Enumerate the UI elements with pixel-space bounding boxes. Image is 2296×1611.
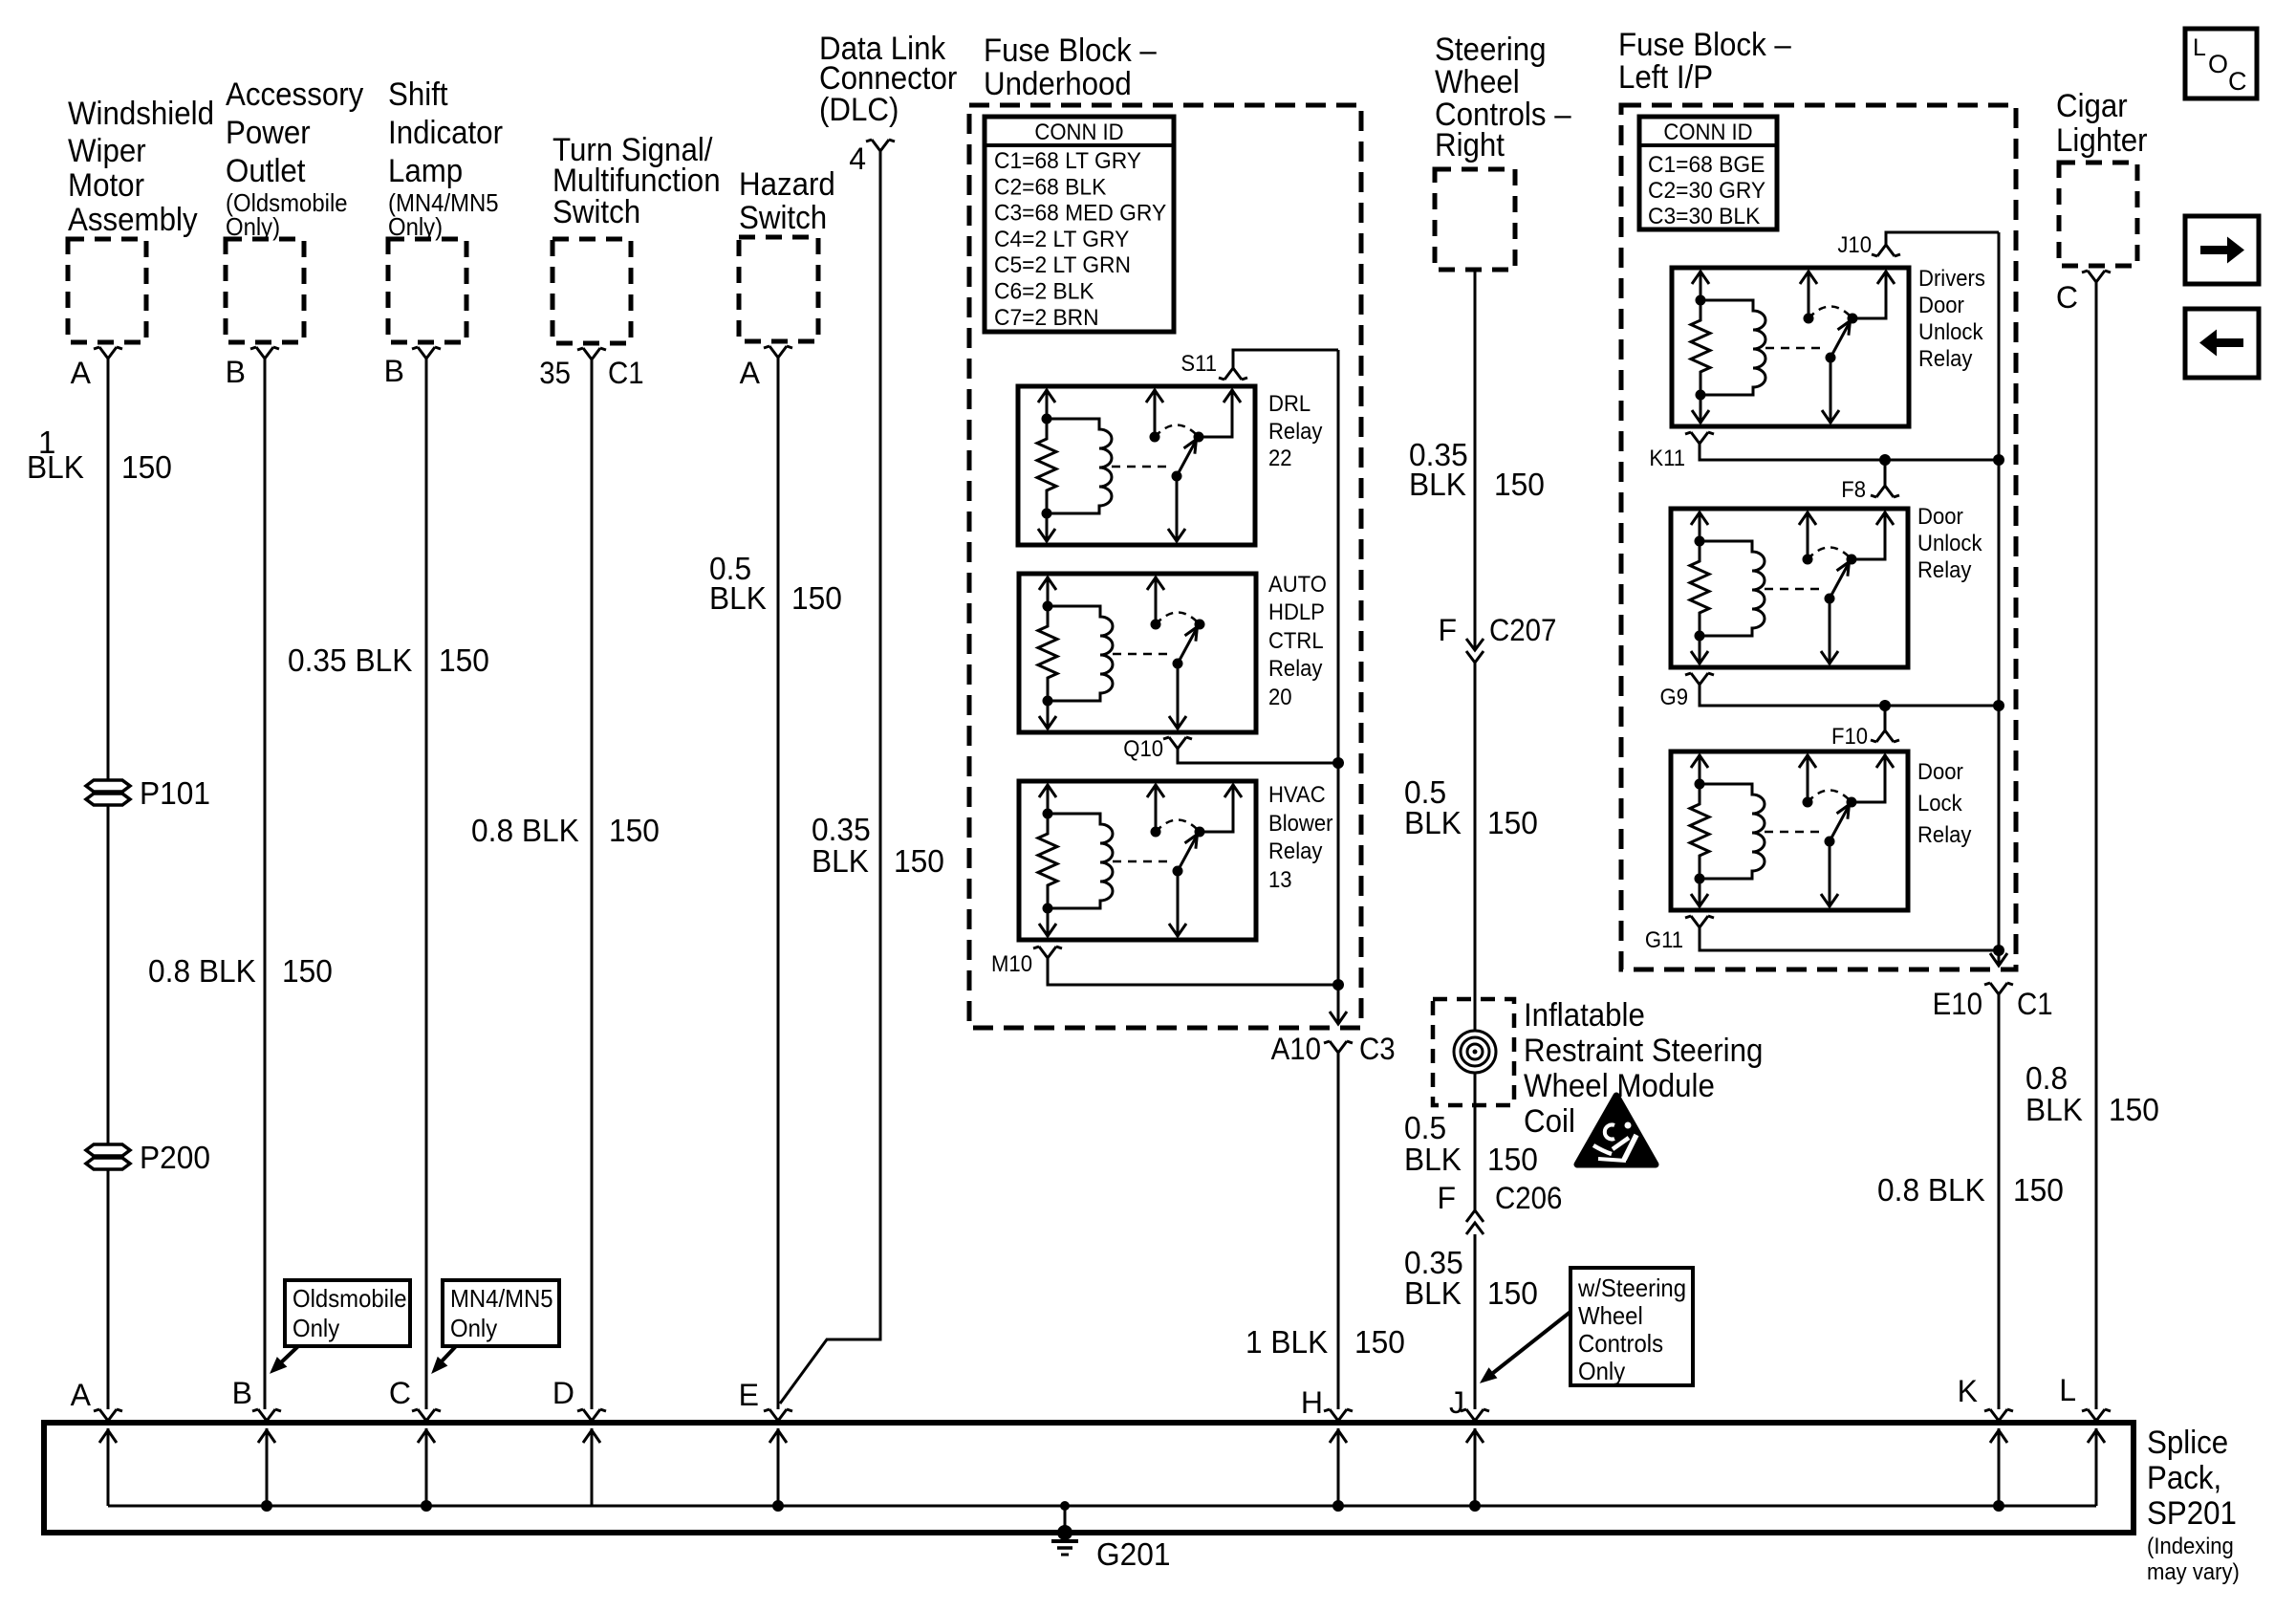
terminal B connector at splice pack bbox=[252, 1409, 281, 1421]
svg-text:C207: C207 bbox=[1489, 613, 1556, 647]
callout Oldsmobile Only bbox=[285, 1280, 410, 1346]
svg-text:CONN ID: CONN ID bbox=[1663, 120, 1752, 145]
terminal H connector at splice pack bbox=[1324, 1409, 1353, 1421]
splice pack pin at x=814 bbox=[769, 1428, 787, 1506]
terminal J connector at splice pack bbox=[1461, 1409, 1489, 1421]
svg-text:A: A bbox=[71, 1378, 92, 1412]
svg-text:L: L bbox=[2059, 1373, 2076, 1407]
svg-text:C3: C3 bbox=[1359, 1032, 1396, 1066]
svg-text:O: O bbox=[2208, 50, 2228, 78]
svg-text:Relay: Relay bbox=[1917, 557, 1971, 583]
wire DLC 0.35 BLK 150 bbox=[780, 151, 880, 1404]
connector box Shift Indicator Lamp bbox=[388, 239, 466, 342]
terminal K connector at splice pack bbox=[1984, 1409, 2013, 1421]
label Splice Pack SP201 bbox=[2147, 1425, 2240, 1585]
svg-text:20: 20 bbox=[1268, 685, 1292, 710]
inline connector F C206 bbox=[1437, 1181, 1562, 1234]
terminal A connector under Windshield box bbox=[94, 347, 122, 359]
terminal E connector at splice pack bbox=[764, 1409, 792, 1421]
splice pack pin at x=619 bbox=[583, 1428, 600, 1506]
svg-text:B: B bbox=[226, 355, 246, 389]
inline connector F C207 bbox=[1438, 613, 1556, 663]
svg-text:1 BLK: 1 BLK bbox=[1245, 1324, 1328, 1360]
pin F10 connector bbox=[1831, 706, 1899, 750]
junction dot on splice bus at x=446 bbox=[421, 1500, 432, 1512]
wire A 1 BLK 150 bbox=[107, 359, 110, 1409]
svg-text:G9: G9 bbox=[1660, 685, 1689, 710]
svg-text:A: A bbox=[740, 356, 761, 390]
svg-text:0.35: 0.35 bbox=[812, 812, 871, 847]
splice pack pin at x=279 bbox=[258, 1428, 275, 1506]
relay Door Unlock Relay bbox=[1671, 509, 1908, 667]
svg-text:HVAC: HVAC bbox=[1268, 782, 1326, 808]
svg-text:0.35 BLK: 0.35 BLK bbox=[288, 642, 412, 678]
svg-text:C6=2 BLK: C6=2 BLK bbox=[994, 279, 1094, 305]
svg-text:G201: G201 bbox=[1096, 1536, 1171, 1572]
inline connector P101 bbox=[86, 780, 130, 792]
coil symbol inflatable restraint bbox=[1454, 1031, 1496, 1073]
svg-text:Blower: Blower bbox=[1268, 811, 1333, 837]
svg-text:C2=30 GRY: C2=30 GRY bbox=[1648, 178, 1765, 204]
svg-text:C5=2 LT GRN: C5=2 LT GRN bbox=[994, 252, 1131, 278]
svg-text:Wheel: Wheel bbox=[1578, 1301, 1643, 1330]
svg-text:BLK: BLK bbox=[812, 843, 869, 879]
svg-text:F8: F8 bbox=[1841, 477, 1866, 503]
terminal E10 C1 connector bbox=[1933, 983, 2053, 1021]
svg-text:150: 150 bbox=[121, 449, 172, 485]
wire left I/P internal bus to E10 bbox=[1990, 232, 2007, 966]
splice pack pin at x=2193 bbox=[2088, 1428, 2105, 1506]
svg-text:150: 150 bbox=[894, 843, 944, 879]
svg-text:C: C bbox=[2228, 67, 2247, 96]
svg-text:Hazard: Hazard bbox=[739, 166, 835, 203]
right arrow navigation box bbox=[2185, 216, 2259, 284]
svg-text:Restraint Steering: Restraint Steering bbox=[1524, 1033, 1763, 1069]
junction dot on splice bus at x=2091 bbox=[1993, 1500, 2004, 1512]
wire C 0.35 BLK 150 bbox=[425, 359, 428, 1409]
relay HVAC Blower Relay 13 bbox=[1019, 781, 1256, 940]
svg-text:B: B bbox=[232, 1376, 252, 1410]
wire underhood internal bus to A10 bbox=[1330, 350, 1347, 1024]
wire D 0.8 BLK 150 bbox=[591, 359, 594, 1409]
svg-text:E: E bbox=[739, 1378, 759, 1412]
splice pack pin at x=1400 bbox=[1330, 1428, 1347, 1506]
svg-text:HDLP: HDLP bbox=[1268, 599, 1325, 625]
svg-text:Lighter: Lighter bbox=[2056, 122, 2148, 159]
terminal B connector under Shift Indicator box bbox=[412, 347, 441, 359]
svg-text:may vary): may vary) bbox=[2147, 1559, 2240, 1585]
svg-text:w/Steering: w/Steering bbox=[1577, 1274, 1686, 1302]
fuse block underhood dashed border bbox=[969, 105, 1361, 1028]
svg-text:MN4/MN5: MN4/MN5 bbox=[450, 1284, 553, 1313]
svg-text:P200: P200 bbox=[140, 1140, 210, 1175]
svg-text:0.8: 0.8 bbox=[2025, 1060, 2068, 1096]
splice pack pin at x=1543 bbox=[1466, 1428, 1484, 1506]
airbag warning triangle bbox=[1577, 1096, 1656, 1165]
svg-text:C206: C206 bbox=[1495, 1181, 1562, 1215]
svg-text:C3=68 MED GRY: C3=68 MED GRY bbox=[994, 201, 1166, 227]
svg-text:0.8 BLK: 0.8 BLK bbox=[148, 953, 256, 989]
left arrow navigation box bbox=[2185, 309, 2259, 378]
relay Drivers Door Unlock Relay bbox=[1672, 268, 1909, 426]
svg-text:C1=68 BGE: C1=68 BGE bbox=[1648, 152, 1765, 178]
wire K 0.8 BLK 150 bbox=[1998, 994, 2001, 1409]
svg-text:SP201: SP201 bbox=[2147, 1495, 2237, 1532]
pin G11 connector bbox=[1645, 916, 1999, 953]
svg-text:0.8 BLK: 0.8 BLK bbox=[471, 813, 579, 848]
wire L 0.8 BLK 150 bbox=[2095, 282, 2098, 1409]
svg-text:Cigar: Cigar bbox=[2056, 88, 2128, 124]
svg-text:A: A bbox=[71, 356, 92, 390]
svg-text:Lamp: Lamp bbox=[388, 153, 463, 189]
svg-text:(Indexing: (Indexing bbox=[2147, 1534, 2234, 1559]
svg-text:K11: K11 bbox=[1649, 446, 1685, 471]
junction dot on splice bus at x=1543 bbox=[1469, 1500, 1481, 1512]
junction dot on splice bus at x=814 bbox=[772, 1500, 784, 1512]
relay Door Lock Relay bbox=[1671, 751, 1908, 910]
svg-text:Wheel: Wheel bbox=[1435, 64, 1520, 100]
svg-text:Steering: Steering bbox=[1435, 32, 1547, 68]
splice pack internal bus bbox=[108, 1505, 2096, 1508]
terminal A10 C3 connector bbox=[1271, 1032, 1396, 1066]
svg-text:F: F bbox=[1438, 613, 1457, 647]
svg-text:C1=68 LT GRY: C1=68 LT GRY bbox=[994, 148, 1141, 174]
callout arrow Oldsmobile Only to wire B bbox=[271, 1346, 298, 1373]
svg-text:(DLC): (DLC) bbox=[819, 92, 899, 128]
svg-text:F: F bbox=[1437, 1181, 1456, 1215]
svg-text:A10: A10 bbox=[1271, 1032, 1321, 1066]
terminal 35 C1 connector under Turn Signal box bbox=[577, 348, 606, 359]
svg-text:Relay: Relay bbox=[1917, 822, 1971, 848]
svg-text:M10: M10 bbox=[991, 951, 1032, 977]
svg-text:E10: E10 bbox=[1933, 987, 1982, 1021]
svg-text:13: 13 bbox=[1268, 867, 1292, 893]
pin K11 connector bbox=[1649, 432, 1999, 471]
svg-text:BLK: BLK bbox=[27, 449, 84, 485]
svg-text:Pack,: Pack, bbox=[2147, 1460, 2221, 1496]
svg-text:Indicator: Indicator bbox=[388, 115, 503, 151]
svg-text:4: 4 bbox=[849, 142, 866, 176]
svg-text:Wiper: Wiper bbox=[68, 133, 146, 169]
terminal A connector at splice pack bbox=[94, 1409, 122, 1421]
svg-text:Door: Door bbox=[1917, 504, 1963, 530]
callout MN4/MN5 Only bbox=[443, 1280, 559, 1346]
svg-text:C: C bbox=[2056, 280, 2078, 315]
svg-text:H: H bbox=[1301, 1385, 1323, 1420]
svg-text:F10: F10 bbox=[1831, 724, 1868, 750]
splice pack pin at x=2091 bbox=[1990, 1428, 2007, 1506]
terminal D connector at splice pack bbox=[577, 1409, 606, 1421]
svg-text:C: C bbox=[389, 1376, 411, 1410]
splice pack pin at x=113 bbox=[99, 1428, 117, 1506]
connector box Cigar Lighter bbox=[2059, 163, 2137, 266]
svg-text:AUTO: AUTO bbox=[1268, 572, 1327, 598]
LOC reference box bbox=[2185, 29, 2257, 98]
svg-text:Fuse Block –: Fuse Block – bbox=[1618, 27, 1791, 63]
svg-text:CONN ID: CONN ID bbox=[1034, 120, 1123, 145]
svg-text:Switch: Switch bbox=[739, 200, 827, 236]
svg-text:Oldsmobile: Oldsmobile bbox=[292, 1284, 407, 1313]
ground G201 bbox=[1051, 1501, 1171, 1572]
svg-text:150: 150 bbox=[791, 580, 842, 616]
svg-text:C7=2 BRN: C7=2 BRN bbox=[994, 305, 1099, 331]
svg-text:J10: J10 bbox=[1837, 232, 1872, 258]
svg-text:C2=68 BLK: C2=68 BLK bbox=[994, 174, 1106, 200]
svg-text:P101: P101 bbox=[140, 775, 210, 811]
svg-text:BLK: BLK bbox=[1404, 1275, 1462, 1311]
fuse block left I/P dashed border bbox=[1621, 105, 2016, 969]
svg-text:Splice: Splice bbox=[2147, 1425, 2228, 1461]
wire H 1 BLK 150 bbox=[1337, 1053, 1340, 1409]
svg-text:Shift: Shift bbox=[388, 76, 448, 113]
callout arrow MN4/MN5 Only to wire C bbox=[432, 1346, 456, 1373]
pin G9 connector bbox=[1660, 673, 2000, 711]
callout w/Steering Wheel Controls Only bbox=[1570, 1268, 1693, 1385]
svg-text:150: 150 bbox=[1487, 1275, 1538, 1311]
relay DRL Relay 22 bbox=[1018, 386, 1255, 545]
svg-text:Drivers: Drivers bbox=[1918, 266, 1985, 292]
svg-text:L: L bbox=[2193, 34, 2206, 61]
wire J bottom segment bbox=[1474, 1234, 1477, 1409]
pin J10 connector bbox=[1837, 232, 1999, 258]
connector box Windshield Wiper Motor Assembly bbox=[68, 239, 146, 342]
terminal B connector under Accessory box bbox=[250, 347, 279, 359]
svg-text:BLK: BLK bbox=[1409, 467, 1466, 502]
svg-text:Only: Only bbox=[1578, 1357, 1625, 1385]
inflatable restraint coil dashed box bbox=[1433, 999, 1514, 1105]
inline connector P200 bbox=[86, 1144, 130, 1156]
svg-text:G11: G11 bbox=[1645, 927, 1683, 953]
svg-text:150: 150 bbox=[609, 813, 660, 848]
CONN ID table underhood bbox=[985, 117, 1174, 332]
svg-text:150: 150 bbox=[1487, 805, 1538, 840]
svg-text:Only: Only bbox=[292, 1314, 339, 1342]
splice pack pin at x=446 bbox=[418, 1428, 435, 1506]
svg-text:Power: Power bbox=[226, 115, 311, 151]
svg-text:Q10: Q10 bbox=[1123, 736, 1163, 762]
svg-text:Unlock: Unlock bbox=[1917, 531, 1982, 556]
svg-text:C4=2 LT GRY: C4=2 LT GRY bbox=[994, 227, 1129, 252]
svg-text:C1: C1 bbox=[2017, 987, 2053, 1021]
terminal A connector under Hazard box bbox=[764, 346, 792, 358]
CONN ID table left I/P bbox=[1639, 117, 1777, 229]
relay AUTO HDLP CTRL Relay 20 bbox=[1019, 574, 1256, 732]
svg-text:Outlet: Outlet bbox=[226, 153, 306, 189]
wire B 0.8 BLK 150 bbox=[264, 359, 267, 1409]
svg-text:Fuse Block –: Fuse Block – bbox=[984, 33, 1157, 69]
terminal L connector at splice pack bbox=[2082, 1409, 2111, 1421]
svg-text:D: D bbox=[552, 1376, 574, 1410]
pin S11 connector bbox=[1180, 350, 1338, 380]
svg-text:BLK: BLK bbox=[1404, 805, 1462, 840]
connector box Steering Wheel Controls - Right bbox=[1435, 169, 1515, 270]
svg-text:Right: Right bbox=[1435, 127, 1505, 163]
svg-text:Switch: Switch bbox=[552, 194, 640, 230]
svg-text:Underhood: Underhood bbox=[984, 66, 1132, 102]
pin F8 connector bbox=[1841, 460, 1899, 503]
svg-text:Left I/P: Left I/P bbox=[1618, 59, 1713, 96]
connector box Turn Signal/Multifunction Switch bbox=[552, 239, 631, 343]
connector box Accessory Power Outlet bbox=[226, 239, 304, 342]
svg-text:Windshield: Windshield bbox=[68, 96, 214, 132]
svg-text:35: 35 bbox=[539, 356, 571, 390]
svg-text:Lock: Lock bbox=[1917, 791, 1963, 816]
svg-text:Unlock: Unlock bbox=[1918, 319, 1983, 345]
svg-text:Door: Door bbox=[1917, 759, 1963, 785]
svg-text:150: 150 bbox=[2013, 1172, 2064, 1208]
svg-text:Accessory: Accessory bbox=[226, 76, 363, 113]
svg-text:Coil: Coil bbox=[1524, 1103, 1575, 1140]
svg-text:K: K bbox=[1958, 1374, 1978, 1408]
svg-text:Inflatable: Inflatable bbox=[1524, 997, 1645, 1034]
svg-text:Relay: Relay bbox=[1268, 656, 1322, 682]
terminal C connector under Cigar Lighter box bbox=[2082, 271, 2111, 282]
label terminal letters at splice pack bbox=[71, 1373, 2076, 1420]
svg-text:BLK: BLK bbox=[1404, 1142, 1462, 1177]
svg-text:Relay: Relay bbox=[1268, 419, 1322, 445]
terminal 4 connector of Data Link Connector bbox=[866, 140, 895, 151]
svg-text:Relay: Relay bbox=[1918, 346, 1972, 372]
junction dot on splice bus at x=279 bbox=[261, 1500, 272, 1512]
svg-text:0.5: 0.5 bbox=[1404, 1110, 1446, 1145]
svg-text:22: 22 bbox=[1268, 446, 1292, 471]
svg-text:B: B bbox=[384, 354, 404, 388]
splice pack SP201 box bbox=[44, 1423, 2134, 1533]
svg-text:Relay: Relay bbox=[1268, 838, 1322, 864]
pin Q10 connector bbox=[1123, 736, 1338, 763]
svg-text:Controls: Controls bbox=[1578, 1329, 1663, 1358]
svg-text:BLK: BLK bbox=[709, 580, 767, 616]
svg-text:J: J bbox=[1449, 1385, 1464, 1420]
svg-text:DRL: DRL bbox=[1268, 391, 1310, 417]
wire J middle segment bbox=[1474, 663, 1477, 1211]
svg-text:Only: Only bbox=[450, 1314, 497, 1342]
svg-text:Door: Door bbox=[1918, 293, 1964, 318]
pin M10 connector bbox=[991, 947, 1338, 985]
svg-text:Assembly: Assembly bbox=[68, 202, 198, 238]
svg-text:150: 150 bbox=[1487, 1142, 1538, 1177]
connector box Hazard Switch bbox=[739, 237, 818, 341]
svg-text:150: 150 bbox=[2109, 1092, 2159, 1127]
wire E 0.5 BLK 150 bbox=[777, 358, 780, 1409]
terminal C connector at splice pack bbox=[412, 1409, 441, 1421]
callout arrow w/Steering to wire J bbox=[1481, 1312, 1570, 1382]
svg-text:0.8 BLK: 0.8 BLK bbox=[1877, 1172, 1985, 1208]
svg-text:Motor: Motor bbox=[68, 167, 144, 204]
svg-text:150: 150 bbox=[1494, 467, 1545, 502]
svg-text:150: 150 bbox=[282, 953, 333, 989]
svg-text:CTRL: CTRL bbox=[1268, 628, 1324, 654]
svg-text:150: 150 bbox=[439, 642, 489, 678]
svg-text:S11: S11 bbox=[1180, 351, 1217, 377]
svg-text:150: 150 bbox=[1354, 1324, 1405, 1360]
svg-text:BLK: BLK bbox=[2025, 1092, 2083, 1127]
svg-text:C3=30 BLK: C3=30 BLK bbox=[1648, 204, 1760, 229]
junction dot on splice bus at x=1400 bbox=[1332, 1500, 1344, 1512]
svg-text:C1: C1 bbox=[608, 356, 644, 390]
wire J from Steering Wheel Controls bbox=[1474, 270, 1477, 649]
